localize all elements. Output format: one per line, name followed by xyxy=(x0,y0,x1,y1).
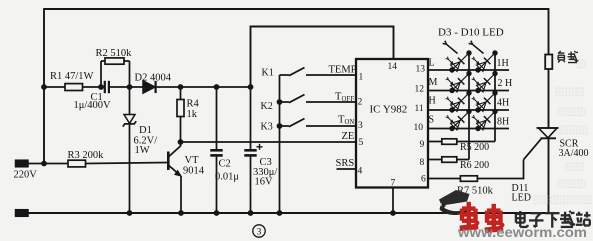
watermark text 电 xyxy=(516,213,525,215)
diode D2 (1N4004) xyxy=(143,81,155,93)
node C3 ground xyxy=(248,210,254,216)
zener diode D1 6.2V xyxy=(124,115,135,124)
transistor VT base bar xyxy=(167,152,170,171)
wire R6 to column1 xyxy=(457,159,469,161)
svg-text:10: 10 xyxy=(414,123,424,133)
wire pin8 to R6 xyxy=(428,159,442,161)
svg-text:IC Y982: IC Y982 xyxy=(370,104,408,116)
svg-text:R3 200k: R3 200k xyxy=(68,150,105,161)
LED D8 (row H) xyxy=(478,93,495,110)
load resistor (vertical box) xyxy=(545,55,552,70)
resistor R2 xyxy=(105,58,124,64)
svg-text:0.01μ: 0.01μ xyxy=(215,172,239,183)
wire node to R1 xyxy=(44,86,65,88)
svg-text:LED: LED xyxy=(512,193,531,204)
watermark red character 虫 (1) xyxy=(462,206,476,210)
SCR thyristor 3A/400 xyxy=(539,128,558,138)
svg-text:14: 14 xyxy=(388,62,398,72)
LED D10 (row S) xyxy=(478,112,495,129)
LED D7 (row H) xyxy=(452,93,469,110)
LED D6 (row M) xyxy=(478,74,495,91)
watermark text 站 xyxy=(578,212,580,214)
wire D2 to supply node xyxy=(156,86,251,88)
svg-text:www.eeworm.com: www.eeworm.com xyxy=(457,225,587,240)
wire C2 top xyxy=(216,87,218,150)
svg-text:1W: 1W xyxy=(135,145,150,156)
node C2 ground xyxy=(214,210,220,216)
svg-text:H: H xyxy=(429,96,436,107)
wire row H (pin11) xyxy=(428,109,509,111)
svg-text:TEMP: TEMP xyxy=(329,65,357,76)
wire bottom rail (ground/return) xyxy=(26,212,549,214)
terminal 220V top xyxy=(16,160,29,167)
wire SCR cathode to bottom rail xyxy=(548,139,550,214)
transistor VT collector xyxy=(168,142,180,157)
label load 负载 xyxy=(558,51,578,63)
svg-text:12: 12 xyxy=(415,85,425,95)
watermark red character 虫 (2) xyxy=(487,208,501,212)
svg-text:SRS: SRS xyxy=(336,158,355,169)
node supply end / C3 / Vdd bracket xyxy=(248,84,254,90)
switch K3 xyxy=(280,125,290,127)
figure number circled 3 xyxy=(253,225,265,237)
wire D1 to ground rail xyxy=(129,124,131,213)
switch K1 xyxy=(280,74,290,76)
wire top border (live rail) xyxy=(44,8,549,10)
wire R4 to ZE node xyxy=(180,117,182,143)
svg-text:2: 2 xyxy=(358,98,363,108)
svg-text:8: 8 xyxy=(420,158,425,168)
node pin7 ground xyxy=(390,210,396,216)
svg-text:ZE: ZE xyxy=(342,131,355,142)
svg-text:9: 9 xyxy=(420,140,425,150)
wire supply node down to D1 xyxy=(129,87,131,115)
wire left vertical xyxy=(43,8,45,163)
resistor R4 xyxy=(177,100,184,117)
watermark text 下 xyxy=(545,212,560,214)
watermark text 载 xyxy=(561,214,570,216)
IC U1 Y982 box xyxy=(356,59,428,188)
svg-text:220V: 220V xyxy=(14,170,38,181)
switch K2 xyxy=(280,101,290,103)
wire pin6 to R7 xyxy=(428,178,460,180)
svg-text:K2: K2 xyxy=(261,101,273,112)
svg-text:16V: 16V xyxy=(255,177,274,188)
wire R5 to column2 xyxy=(457,141,495,143)
svg-text:13: 13 xyxy=(416,65,426,75)
svg-text:1k: 1k xyxy=(187,109,198,120)
capacitor C3 xyxy=(244,149,256,152)
wire LED column 2 xyxy=(494,52,496,142)
node switch common ground xyxy=(277,210,283,216)
svg-text:7: 7 xyxy=(391,179,396,189)
svg-text:5: 5 xyxy=(359,138,364,148)
svg-text:VT: VT xyxy=(185,155,200,166)
wire C3 top xyxy=(250,87,252,150)
wire switch common vertical xyxy=(279,75,281,213)
svg-text:K3: K3 xyxy=(261,122,273,133)
capacitor C1 xyxy=(104,81,106,93)
terminal bottom xyxy=(16,210,29,217)
wire to R2 box xyxy=(101,60,105,62)
wire ZE line to IC pin 5 xyxy=(181,141,357,143)
svg-text:L: L xyxy=(429,58,435,69)
svg-text:3: 3 xyxy=(358,121,363,131)
svg-text:4: 4 xyxy=(358,167,363,177)
svg-text:11: 11 xyxy=(415,104,424,114)
svg-text:1H: 1H xyxy=(497,58,509,69)
wire pin9 to R5 xyxy=(428,141,442,143)
node R4 top xyxy=(178,84,184,90)
wire right vertical to load xyxy=(548,8,550,55)
svg-text:M: M xyxy=(429,77,438,88)
svg-text:9014: 9014 xyxy=(183,166,205,177)
svg-text:ON: ON xyxy=(345,119,355,126)
LED D4 (row L) xyxy=(478,53,495,70)
node R2/D1 junction xyxy=(127,84,133,90)
wire C1 to D2 xyxy=(109,86,143,88)
svg-text:K1: K1 xyxy=(262,68,274,79)
capacitor C3 plus sign xyxy=(257,146,263,148)
svg-text:D2 4004: D2 4004 xyxy=(135,73,172,84)
node junction left vertical / supply wire xyxy=(41,84,47,90)
wire R2 to right leg xyxy=(124,60,130,62)
wire LED column 1 xyxy=(468,52,470,160)
wire R7 to gate corner xyxy=(477,178,523,180)
wire row L (pin13) xyxy=(428,69,509,71)
svg-text:1: 1 xyxy=(359,73,364,83)
svg-text:4H: 4H xyxy=(497,98,509,109)
node R4/collector/ZE junction xyxy=(178,139,184,145)
wire terminal to node xyxy=(28,163,68,165)
resistor R1 xyxy=(65,84,83,91)
wire C3 bottom xyxy=(250,155,252,213)
LED D9 (row S) xyxy=(452,112,469,129)
wire Vdd bracket to pin 14 xyxy=(251,27,394,88)
wire SRS stub pin 4 xyxy=(337,168,357,170)
svg-text:C2: C2 xyxy=(219,159,231,170)
svg-text:R6 200: R6 200 xyxy=(460,160,489,171)
svg-text:8H: 8H xyxy=(497,117,509,128)
svg-text:R5 200: R5 200 xyxy=(460,142,489,153)
node C2 top xyxy=(214,84,220,90)
svg-text:R2 510k: R2 510k xyxy=(96,48,133,59)
node emitter ground xyxy=(178,210,184,216)
wire supply to R4 xyxy=(180,87,182,100)
LED D5 (row M) xyxy=(452,74,469,91)
wire gate vertical xyxy=(523,160,525,180)
svg-text:D1: D1 xyxy=(139,125,152,136)
resistor R2 branch left leg xyxy=(100,61,102,87)
resistor R5 xyxy=(442,139,457,145)
svg-text:3A/400: 3A/400 xyxy=(559,148,589,159)
svg-text:R1 47/1W: R1 47/1W xyxy=(50,71,94,82)
resistor R3 xyxy=(68,160,86,167)
ghost print-through text right margin xyxy=(534,60,591,204)
svg-text:3: 3 xyxy=(257,228,262,238)
capacitor C2 xyxy=(210,149,222,152)
node K3 common xyxy=(277,123,283,129)
watermark cap logo xyxy=(446,190,470,204)
wire row S (pin10) xyxy=(428,128,509,130)
svg-text:OFF: OFF xyxy=(342,96,355,103)
LED D3 (row L) xyxy=(452,53,469,70)
resistor R7 xyxy=(460,176,477,182)
svg-text:6: 6 xyxy=(421,175,426,185)
wire gate diagonal to SCR xyxy=(524,138,543,160)
wire R1 to C1 xyxy=(83,86,105,88)
svg-text:R4: R4 xyxy=(187,99,200,110)
node junction left-vertical/220V wire xyxy=(41,161,47,167)
transistor VT emitter with arrow xyxy=(168,165,180,176)
svg-text:2 H: 2 H xyxy=(498,78,513,89)
wire C2 bottom xyxy=(216,155,218,213)
wire R3 to VT base xyxy=(86,163,168,164)
svg-text:D3 - D10 LED: D3 - D10 LED xyxy=(438,27,504,39)
watermark text 子 xyxy=(530,212,542,214)
resistor R2 branch right leg xyxy=(129,61,131,87)
wire load to SCR anode xyxy=(548,69,550,128)
node C1 left / R2 tap xyxy=(98,84,104,90)
wire pin 7 to ground xyxy=(392,188,394,214)
node D1 ground xyxy=(127,210,133,216)
svg-text:S: S xyxy=(429,115,435,126)
wire row M (pin12) xyxy=(428,90,509,92)
svg-text:1μ/400V: 1μ/400V xyxy=(74,100,112,111)
node K2 common xyxy=(277,99,283,105)
resistor R6 xyxy=(442,157,457,163)
